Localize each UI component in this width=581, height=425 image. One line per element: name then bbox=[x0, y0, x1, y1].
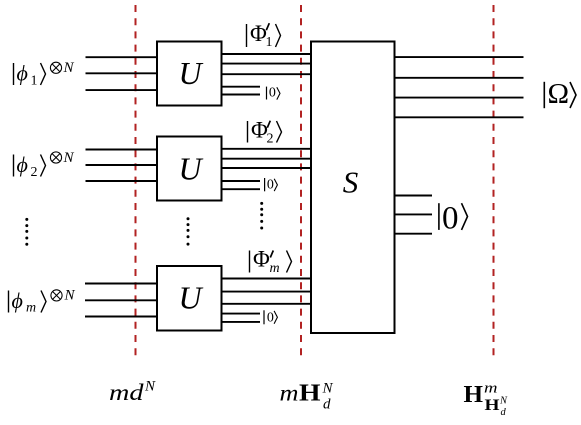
svg-text:H: H bbox=[299, 381, 321, 407]
svg-text:H: H bbox=[464, 382, 484, 408]
svg-text:m: m bbox=[26, 301, 36, 316]
dimension label H^m_(H_d^N) bbox=[464, 380, 509, 418]
gate S (joint compression unitary) bbox=[311, 42, 395, 334]
svg-text:0: 0 bbox=[267, 178, 274, 193]
svg-text:U: U bbox=[178, 280, 203, 316]
wire: S outputs to |Omega> (4 lines) bbox=[394, 57, 524, 117]
svg-text:m: m bbox=[270, 261, 280, 276]
svg-text:0: 0 bbox=[269, 85, 276, 100]
gate U3 (compression unitary) bbox=[157, 266, 222, 331]
wire: U2 to S (3 lines) bbox=[221, 149, 313, 168]
dashed cut line 1 (dimension md^N) bbox=[135, 5, 137, 357]
wire: U1 ancilla stubs (2 short lines) bbox=[221, 87, 261, 95]
svg-text:N: N bbox=[63, 150, 75, 166]
svg-text:N: N bbox=[64, 288, 76, 304]
svg-text:N: N bbox=[322, 381, 334, 397]
svg-text:ϕ: ϕ bbox=[17, 152, 28, 177]
wire: U1 to S (3 lines) bbox=[221, 54, 313, 74]
svg-text:m: m bbox=[484, 380, 498, 396]
svg-text:Φ: Φ bbox=[251, 118, 268, 143]
wire: U2 ancilla stubs (2 short lines) bbox=[221, 181, 261, 189]
svg-text:m: m bbox=[280, 381, 299, 406]
node label |phi_m>^(x)N bbox=[9, 288, 76, 316]
node label |0> ancilla U3 bbox=[264, 310, 277, 325]
wire: U3 to S (3 lines) bbox=[221, 279, 313, 304]
node label |Phi'_2> bbox=[248, 118, 282, 147]
gate U2 (compression unitary) bbox=[157, 137, 222, 201]
svg-text:Φ: Φ bbox=[250, 21, 267, 46]
svg-text:md: md bbox=[109, 380, 144, 405]
wire: inputs to U3 (3 lines) bbox=[85, 284, 158, 317]
dimension label mH_d^N bbox=[280, 381, 334, 413]
gate U1 (compression unitary) bbox=[157, 42, 222, 106]
svg-text:ϕ: ϕ bbox=[12, 288, 23, 313]
svg-text:N: N bbox=[144, 379, 156, 395]
node label |0> ancilla U1 bbox=[267, 85, 281, 100]
wire: S ancilla outputs |0> (3 short lines) bbox=[394, 196, 433, 234]
node label |phi_2>^(x)N bbox=[14, 150, 75, 180]
svg-text:d: d bbox=[323, 397, 331, 413]
wire: inputs to U2 (3 lines) bbox=[86, 150, 159, 182]
node label |Phi'_1> bbox=[247, 21, 281, 50]
wire: U3 ancilla stubs (2 short lines) bbox=[221, 314, 261, 322]
svg-text:0: 0 bbox=[267, 310, 274, 325]
node label |Omega> (final output) bbox=[544, 78, 576, 110]
svg-text:0: 0 bbox=[442, 201, 459, 237]
ellipsis dots (left, between phi_2 and phi_m) bbox=[25, 218, 28, 246]
svg-text:N: N bbox=[499, 396, 508, 407]
svg-text:2: 2 bbox=[31, 165, 38, 180]
ellipsis dots (right, between Phi'_2 and Phi'_m) bbox=[260, 202, 263, 230]
svg-text:U: U bbox=[178, 151, 203, 187]
svg-text:2: 2 bbox=[267, 132, 274, 147]
svg-text:Φ: Φ bbox=[253, 246, 270, 271]
svg-text:U: U bbox=[178, 55, 203, 91]
svg-text:d: d bbox=[501, 407, 507, 418]
node label |0> (S ancilla output) bbox=[439, 201, 468, 237]
svg-text:ϕ: ϕ bbox=[17, 61, 28, 86]
node label |Phi'_m> bbox=[250, 246, 292, 276]
dimension label md^N bbox=[109, 379, 156, 406]
wire: inputs to U1 (3 lines) bbox=[86, 57, 159, 90]
svg-text:H: H bbox=[485, 397, 501, 414]
dashed cut line 2 (dimension mH_d^N) bbox=[300, 5, 302, 357]
node label |phi_1>^(x)N bbox=[14, 60, 75, 89]
dashed cut line 3 (dimension H^m) bbox=[493, 5, 495, 357]
svg-text:1: 1 bbox=[31, 74, 38, 89]
ellipsis dots (middle, between U2 and U3) bbox=[187, 217, 190, 245]
svg-text:Ω: Ω bbox=[548, 78, 570, 110]
svg-text:1: 1 bbox=[266, 35, 273, 50]
svg-text:N: N bbox=[63, 60, 75, 76]
svg-text:S: S bbox=[343, 165, 359, 200]
node label |0> ancilla U2 bbox=[265, 178, 278, 193]
